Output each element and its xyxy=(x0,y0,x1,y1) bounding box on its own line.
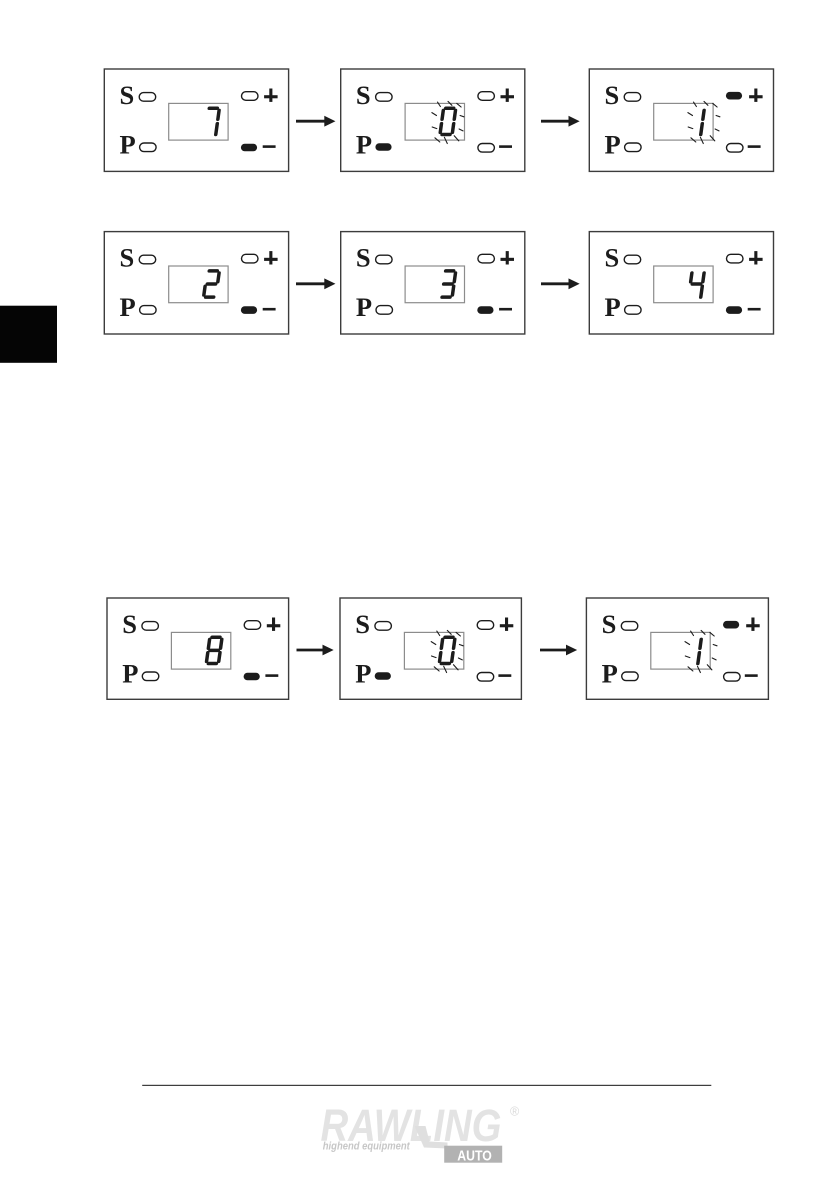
panel C1 minus sign xyxy=(265,674,278,677)
panel A2 minus indicator LED xyxy=(478,144,495,153)
panel B2 minus indicator LED xyxy=(477,306,493,314)
svg-text:S: S xyxy=(120,80,135,110)
panel B1 digit 2 xyxy=(204,271,220,297)
svg-text:P: P xyxy=(605,130,621,160)
panel A1 minus sign xyxy=(263,145,276,148)
panel A3 minus indicator LED xyxy=(727,144,744,153)
panel B2 seven-segment display window xyxy=(405,266,464,303)
panel A2 seven-segment display window xyxy=(405,103,464,140)
panel C3 plus indicator LED xyxy=(723,621,739,629)
panel A2 digit 0 blinking xyxy=(440,108,456,134)
svg-text:S: S xyxy=(356,80,371,110)
arrow B1-B2: flow arrow xyxy=(296,279,334,288)
panel A3 P indicator LED xyxy=(625,143,642,152)
panel B1: display panel box xyxy=(104,232,288,334)
panel C1 minus indicator LED xyxy=(244,673,260,681)
panel C3: display panel box xyxy=(586,598,768,699)
panel A2 plus sign xyxy=(501,89,515,102)
panel C1 S indicator LED xyxy=(142,622,159,631)
panel B3 minus indicator LED xyxy=(726,306,742,314)
panel B2 plus indicator LED xyxy=(478,254,495,263)
panel C2 S indicator LED xyxy=(375,622,392,631)
panel A2 S indicator LED xyxy=(376,93,393,102)
svg-text:P: P xyxy=(605,292,621,322)
panel A1 P indicator LED xyxy=(140,143,157,152)
svg-text:S: S xyxy=(355,609,370,639)
panel A3 plus indicator LED xyxy=(726,92,742,100)
svg-text:®: ® xyxy=(510,1104,520,1118)
panel B1 seven-segment display window xyxy=(169,266,228,303)
arrow C2-C3: flow arrow xyxy=(540,645,576,654)
svg-text:P: P xyxy=(122,659,138,689)
panel A3 S indicator LED xyxy=(624,93,641,102)
panel B3 P indicator LED xyxy=(625,306,642,315)
panel B3: display panel box xyxy=(589,232,773,334)
panel C1 plus indicator LED xyxy=(244,621,261,630)
panel B1 plus indicator LED xyxy=(242,254,259,263)
panel C1 seven-segment display window xyxy=(171,632,230,669)
panel A1 seven-segment display window xyxy=(169,103,228,140)
svg-text:AUTO: AUTO xyxy=(457,1147,492,1164)
panel C3 digit 1 blinking xyxy=(698,639,701,663)
panel C3 P indicator LED xyxy=(622,672,639,681)
panel A3 digit 1 blinking xyxy=(701,110,704,134)
panel A3 minus sign xyxy=(748,145,761,148)
panel B3 seven-segment display window xyxy=(654,266,713,303)
panel B1 S indicator LED xyxy=(139,255,156,264)
panel C2 minus sign xyxy=(498,674,511,677)
panel B2 minus sign xyxy=(499,308,512,311)
panel C2 minus indicator LED xyxy=(477,673,494,682)
panel A1 plus indicator LED xyxy=(242,92,259,101)
panel C1 P indicator LED xyxy=(142,672,159,681)
panel C2: display panel box xyxy=(340,598,521,699)
panel B1 minus indicator LED xyxy=(241,306,257,314)
svg-text:P: P xyxy=(355,659,371,689)
svg-text:P: P xyxy=(356,292,372,322)
svg-text:P: P xyxy=(356,130,372,160)
panel A3: display panel box xyxy=(589,69,773,171)
arrow B2-B3: flow arrow xyxy=(541,279,579,288)
arrow A2-A3: flow arrow xyxy=(541,117,579,126)
panel C2 seven-segment display window xyxy=(404,632,463,669)
panel B2: display panel box xyxy=(341,232,525,334)
black section tab on left page edge xyxy=(0,306,57,363)
AUTO badge box xyxy=(444,1146,502,1163)
logo L-foot swoosh xyxy=(415,1126,448,1149)
svg-text:S: S xyxy=(605,80,620,110)
panel C3 minus sign xyxy=(745,674,758,677)
panel C3 plus sign xyxy=(746,618,760,631)
panel A2: display panel box xyxy=(341,69,525,171)
panel B3 digit 4 xyxy=(689,273,705,297)
svg-text:P: P xyxy=(120,130,136,160)
panel B3 minus sign xyxy=(748,308,761,311)
svg-text:S: S xyxy=(605,242,620,272)
svg-text:highend equipment: highend equipment xyxy=(323,1141,410,1153)
arrow C1-C2: flow arrow xyxy=(297,645,333,654)
panel A1 minus indicator LED xyxy=(241,144,257,152)
panel C2 plus sign xyxy=(500,618,514,631)
panel C1: display panel box xyxy=(107,598,289,699)
panel C3 seven-segment display window xyxy=(651,632,710,669)
svg-text:S: S xyxy=(602,609,617,639)
svg-text:P: P xyxy=(120,292,136,322)
panel A1 S indicator LED xyxy=(139,93,156,102)
panel A2 minus sign xyxy=(499,145,512,148)
panel C3 S indicator LED xyxy=(621,622,638,631)
panel A1 digit 7 xyxy=(206,108,220,134)
panel B1 minus sign xyxy=(263,308,276,311)
panel B2 plus sign xyxy=(501,251,515,264)
svg-text:S: S xyxy=(122,609,137,639)
panel B3 plus sign xyxy=(749,251,763,264)
panel B2 digit 3 xyxy=(442,271,456,297)
panel C3 minus indicator LED xyxy=(724,673,741,682)
panel A1: display panel box xyxy=(104,69,288,171)
panel C2 plus indicator LED xyxy=(477,621,494,630)
svg-text:P: P xyxy=(602,659,618,689)
panel B3 S indicator LED xyxy=(624,255,641,264)
svg-text:S: S xyxy=(356,242,371,272)
svg-text:S: S xyxy=(120,242,135,272)
panel A3 plus sign xyxy=(749,89,763,102)
panel A2 plus indicator LED xyxy=(478,92,495,101)
panel C1 plus sign xyxy=(267,618,281,631)
panel C2 digit 0 blinking xyxy=(439,637,455,663)
panel B2 S indicator LED xyxy=(376,255,393,264)
panel B3 plus indicator LED xyxy=(727,254,744,263)
panel A2 P indicator LED xyxy=(375,143,391,151)
panel C1 digit 8 xyxy=(206,637,222,663)
arrow A1-A2: flow arrow xyxy=(296,117,334,126)
panel B1 P indicator LED xyxy=(140,306,157,315)
panel A3 seven-segment display window xyxy=(654,103,713,140)
footer horizontal rule xyxy=(142,1085,711,1086)
panel A1 plus sign xyxy=(264,89,278,102)
panel C2 P indicator LED xyxy=(375,672,391,680)
panel B2 P indicator LED xyxy=(376,306,393,315)
panel B1 plus sign xyxy=(264,251,278,264)
